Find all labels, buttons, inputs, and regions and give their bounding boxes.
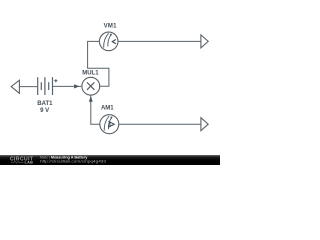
svg-text:http://circuitlab.com/cmpq4g43: http://circuitlab.com/cmpq4g433 <box>40 160 106 164</box>
svg-text:VM1: VM1 <box>104 24 118 30</box>
svg-text:9 V: 9 V <box>40 108 49 114</box>
svg-text:AM1: AM1 <box>101 106 114 112</box>
svg-text:BAT1: BAT1 <box>37 101 53 107</box>
svg-text:LAB: LAB <box>25 161 34 165</box>
svg-text:MUL1: MUL1 <box>82 71 99 77</box>
